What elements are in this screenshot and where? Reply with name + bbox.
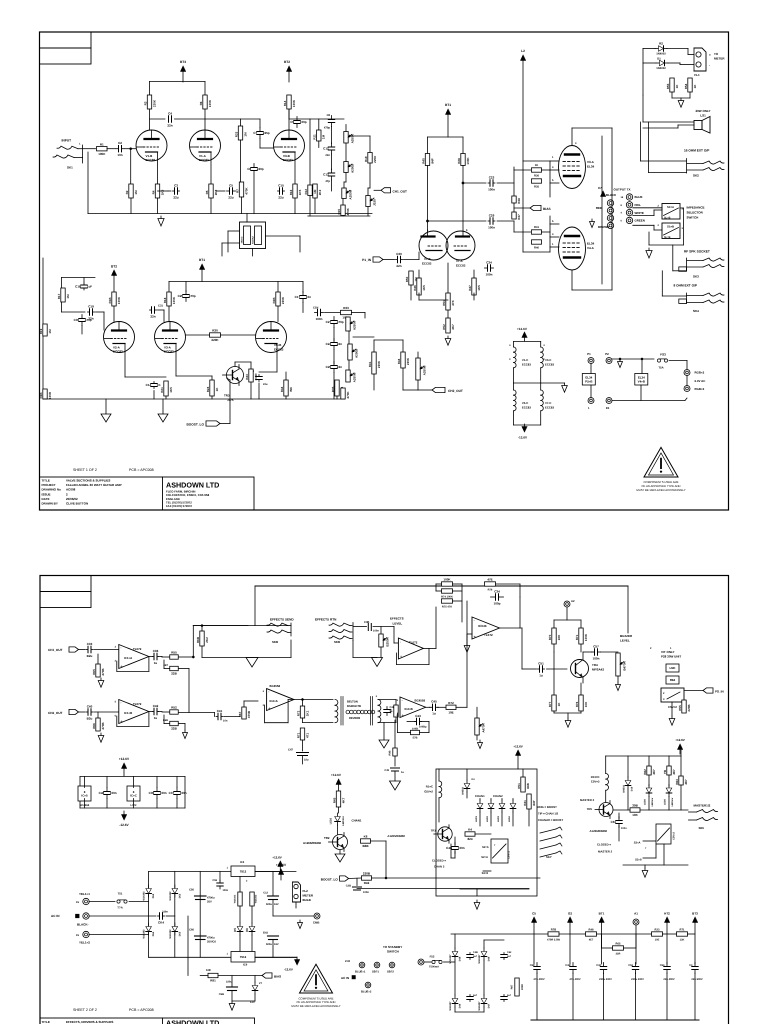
svg-text:100n: 100n: [488, 187, 495, 191]
svg-text:BULB: BULB: [303, 898, 312, 902]
svg-text:471: 471: [305, 733, 309, 738]
svg-text:J155: J155: [373, 199, 377, 206]
svg-text:4N4=2: 4N4=2: [241, 236, 244, 244]
svg-text:V7-B: V7-B: [424, 257, 431, 261]
svg-text:A2: A2: [571, 599, 575, 603]
svg-text:1M: 1M: [48, 329, 52, 334]
svg-text:R6: R6: [199, 101, 203, 105]
svg-text:1: 1: [588, 407, 590, 410]
svg-text:C54: C54: [660, 964, 665, 967]
svg-text:-12.6V: -12.6V: [119, 823, 129, 827]
svg-text:R76: R76: [488, 589, 493, 592]
svg-text:8: 8: [621, 204, 623, 207]
svg-text:5: 5: [552, 220, 554, 223]
svg-text:7912: 7912: [240, 955, 247, 959]
svg-text:+12.6V: +12.6V: [517, 327, 528, 331]
svg-text:T?A: T?A: [117, 906, 122, 910]
svg-text:4u7: 4u7: [507, 994, 512, 997]
svg-text:R77: R77: [548, 701, 552, 707]
svg-text:3: 3: [115, 646, 117, 649]
svg-text:MASTER 2: MASTER 2: [580, 798, 595, 802]
svg-text:ECC83: ECC83: [522, 363, 531, 367]
svg-text:C57: C57: [593, 644, 599, 648]
svg-text:A250M: A250M: [353, 372, 357, 382]
svg-text:TR3: TR3: [224, 394, 230, 398]
svg-text:C7: C7: [253, 131, 257, 135]
svg-text:C34: C34: [486, 260, 492, 264]
svg-text:6: 6: [115, 715, 117, 718]
svg-text:1u: 1u: [432, 712, 436, 716]
svg-text:5: 5: [552, 179, 554, 182]
svg-text:2: 2: [246, 880, 248, 883]
svg-text:470R 2.5W: 470R 2.5W: [547, 939, 561, 942]
svg-text:C24: C24: [326, 342, 332, 346]
svg-text:R70: R70: [548, 634, 552, 640]
svg-text:FEIL: FEIL: [635, 203, 641, 207]
svg-text:2: 2: [658, 205, 660, 208]
svg-text:AC008: AC008: [66, 488, 76, 492]
svg-text:20W ONLY: 20W ONLY: [695, 109, 710, 113]
svg-text:BT1: BT1: [445, 103, 451, 107]
svg-text:R71: R71: [296, 732, 300, 738]
svg-text:GREEN: GREEN: [635, 219, 645, 223]
svg-text:PS_IN: PS_IN: [715, 690, 724, 694]
svg-text:1K5: 1K5: [422, 285, 426, 291]
svg-text:100K: 100K: [208, 99, 212, 107]
svg-text:16: 16: [621, 196, 624, 199]
svg-text:C35: C35: [74, 318, 80, 322]
svg-text:V7-A: V7-A: [456, 259, 463, 263]
svg-text:-: -: [709, 63, 710, 67]
svg-text:IC3=B: IC3=B: [478, 624, 487, 628]
svg-text:A250b: A250b: [351, 164, 355, 173]
svg-text:R76: R76: [575, 701, 579, 707]
svg-text:CLIVE BUTTON: CLIVE BUTTON: [66, 502, 88, 506]
svg-text:R13=C: R13=C: [591, 775, 600, 779]
svg-text:R4: R4: [151, 190, 155, 194]
svg-text:C45: C45: [431, 700, 437, 704]
svg-text:D53: D53: [178, 893, 181, 898]
svg-text:R41: R41: [534, 226, 539, 229]
svg-text:SELECTOR: SELECTOR: [687, 211, 704, 215]
svg-text:W16302: W16302: [234, 894, 237, 903]
svg-text:220B: 220B: [687, 704, 691, 712]
svg-text:C34: C34: [494, 589, 500, 593]
svg-text:100n: 100n: [488, 225, 495, 229]
svg-text:R71: R71: [575, 634, 579, 640]
svg-text:C37: C37: [169, 791, 175, 795]
svg-text:+12.6V: +12.6V: [513, 745, 523, 749]
svg-text:R45: R45: [332, 797, 336, 803]
svg-text:BLACK: BLACK: [606, 193, 617, 197]
svg-text:CSV=2: CSV=2: [508, 850, 511, 859]
svg-text:C19: C19: [88, 304, 94, 308]
svg-text:30B: 30B: [632, 804, 638, 808]
svg-text:16 OHM EXT O/P: 16 OHM EXT O/P: [684, 149, 710, 153]
svg-text:100K: 100K: [117, 296, 121, 304]
svg-text:220R: 220R: [521, 984, 524, 990]
svg-text:B2u: B2u: [87, 716, 93, 720]
svg-text:4u7: 4u7: [507, 955, 512, 958]
svg-text:2K2: 2K2: [205, 637, 209, 643]
svg-text:R45: R45: [421, 158, 425, 164]
svg-text:ECC83: ECC83: [146, 158, 156, 162]
svg-text:220B: 220B: [363, 872, 371, 876]
svg-text:10n: 10n: [306, 295, 311, 299]
svg-text:R40: R40: [534, 247, 539, 250]
svg-text:IC=5: IC=5: [81, 794, 88, 798]
svg-text:470p: 470p: [189, 294, 196, 298]
svg-text:TIP = CHAN 1/2: TIP = CHAN 1/2: [538, 812, 559, 816]
svg-text:C55: C55: [212, 879, 217, 882]
svg-text:A250M: A250M: [349, 189, 353, 199]
svg-text:T51: T51: [118, 892, 123, 896]
svg-text:220u 400V: 220u 400V: [631, 978, 644, 981]
svg-text:D48: D48: [459, 956, 462, 961]
svg-text:470B: 470B: [101, 722, 105, 730]
svg-text:1M: 1M: [66, 294, 70, 299]
svg-text:F52: F52: [430, 955, 435, 959]
svg-text:1u: 1u: [154, 716, 158, 720]
svg-text:BT3: BT3: [692, 912, 698, 916]
svg-text:1K: 1K: [675, 84, 679, 89]
svg-text:C8: C8: [327, 114, 331, 117]
svg-text:C60: C60: [189, 929, 194, 932]
svg-text:CLOSED =: CLOSED =: [432, 859, 446, 863]
svg-text:SKB: SKB: [272, 640, 278, 644]
svg-text:100R: 100R: [48, 391, 52, 399]
svg-text:22n: 22n: [325, 154, 330, 157]
svg-text:TR2: TR2: [324, 836, 330, 840]
svg-text:AC IN: AC IN: [51, 914, 60, 918]
svg-text:LED2: LED2: [486, 815, 489, 822]
svg-text:IC=C: IC=C: [130, 794, 138, 798]
svg-text:CH2_OUT: CH2_OUT: [48, 711, 63, 715]
svg-text:CHAN 2: CHAN 2: [434, 865, 445, 869]
svg-text:7812: 7812: [240, 869, 247, 873]
svg-text:SWITCH: SWITCH: [687, 216, 699, 220]
svg-text:47p: 47p: [325, 180, 330, 183]
svg-text:R72: R72: [296, 710, 300, 716]
svg-text:10n: 10n: [223, 720, 228, 723]
svg-text:LNK: LNK: [670, 666, 677, 670]
svg-text:R17: R17: [57, 293, 61, 299]
svg-text:VALVE SECTIONS & SUPPLIES: VALVE SECTIONS & SUPPLIES: [66, 479, 110, 483]
svg-text:EFFECTS SEND: EFFECTS SEND: [270, 618, 294, 622]
svg-text:1K: 1K: [693, 84, 697, 89]
svg-text:S1=B: S1=B: [667, 225, 674, 229]
svg-text:LED3mr: LED3mr: [651, 797, 654, 806]
svg-text:TR4: TR4: [592, 663, 598, 667]
svg-text:V5=B: V5=B: [274, 343, 281, 347]
svg-text:A1266/BS860: A1266/BS860: [303, 841, 322, 845]
svg-text:-12.6V: -12.6V: [284, 968, 293, 972]
svg-text:R55: R55: [666, 83, 670, 89]
svg-text:EL34: EL34: [587, 165, 595, 169]
svg-text:R34: R34: [397, 358, 401, 364]
svg-text:SB5: SB5: [699, 826, 705, 830]
svg-text:12V: 12V: [250, 1001, 255, 1004]
svg-text:4700u: 4700u: [207, 897, 215, 900]
svg-text:C2B: C2B: [346, 885, 351, 888]
svg-text:C32: C32: [596, 964, 601, 967]
svg-text:DRAWN BY: DRAWN BY: [42, 502, 58, 506]
svg-text:W16302: W16302: [255, 894, 258, 903]
svg-text:R31: R31: [368, 361, 372, 367]
svg-text:S3=A: S3=A: [634, 842, 641, 845]
svg-text:BELTON: BELTON: [347, 701, 358, 704]
svg-text:R72: R72: [448, 701, 454, 705]
svg-text:R82: R82: [643, 769, 647, 775]
svg-text:C5B: C5B: [219, 993, 224, 996]
svg-text:1: 1: [79, 143, 81, 146]
svg-text:C9: C9: [290, 120, 294, 124]
svg-text:REVERB: REVERB: [349, 717, 360, 720]
svg-text:C61: C61: [611, 820, 617, 824]
svg-text:4: 4: [552, 233, 554, 236]
svg-text:1u: 1u: [539, 673, 543, 677]
svg-text:R5: R5: [205, 190, 209, 194]
svg-text:LED5: LED5: [664, 798, 667, 805]
svg-text:AC IN: AC IN: [341, 976, 349, 980]
svg-text:MUST BE REPLACED ACCORDINGLY: MUST BE REPLACED ACCORDINGLY: [291, 1004, 340, 1008]
svg-text:470K: 470K: [346, 391, 350, 399]
svg-text:SK1: SK1: [67, 166, 73, 170]
svg-text:C62: C62: [507, 951, 512, 954]
svg-text:1K: 1K: [557, 702, 561, 707]
svg-text:A470K: A470K: [482, 723, 486, 733]
svg-text:2K2: 2K2: [214, 189, 218, 195]
svg-text:C53: C53: [628, 964, 633, 967]
svg-text:SHEET 1 OF 2: SHEET 1 OF 2: [73, 468, 97, 472]
svg-text:PCB = APC008: PCB = APC008: [129, 468, 154, 472]
svg-text:C50: C50: [189, 889, 194, 892]
svg-text:FALLEN ANGEL 60 WATT GUITAR AM: FALLEN ANGEL 60 WATT GUITAR AMP: [66, 483, 122, 487]
svg-text:P2: P2: [605, 352, 609, 356]
svg-text:SKB: SKB: [334, 640, 340, 644]
svg-text:C51: C51: [538, 661, 544, 665]
svg-text:R46: R46: [413, 285, 417, 291]
svg-text:C1B: C1B: [75, 285, 82, 289]
svg-text:100n: 100n: [593, 656, 600, 660]
svg-text:ECC83: ECC83: [545, 406, 554, 410]
svg-text:S2=6: S2=6: [482, 846, 489, 849]
svg-text:E3: E3: [606, 407, 610, 410]
svg-text:8 OHM EXT O/P: 8 OHM EXT O/P: [674, 284, 698, 288]
svg-text:TL072: TL072: [133, 647, 142, 651]
svg-text:CK4: CK4: [158, 920, 164, 924]
svg-text:1M: 1M: [322, 134, 326, 139]
svg-text:BT1: BT1: [199, 258, 205, 262]
svg-text:16V: 16V: [274, 943, 279, 946]
svg-text:ISSUE: ISSUE: [42, 492, 51, 496]
svg-text:LED3: LED3: [330, 817, 333, 824]
svg-text:C5V=2: C5V=2: [673, 832, 676, 840]
svg-text:W4503: W4503: [623, 785, 626, 793]
svg-text:500u: 500u: [266, 903, 272, 906]
svg-text:R30: R30: [212, 329, 218, 333]
svg-text:ECC83: ECC83: [274, 348, 284, 352]
svg-text:10n: 10n: [117, 153, 122, 157]
svg-text:4K7: 4K7: [451, 324, 455, 330]
svg-text:C12: C12: [263, 892, 268, 895]
svg-text:R55: R55: [171, 651, 177, 655]
svg-text:22n: 22n: [396, 264, 401, 268]
svg-text:1u: 1u: [154, 661, 158, 665]
svg-text:BOOST_LO: BOOST_LO: [186, 423, 204, 427]
svg-text:RGB=2: RGB=2: [695, 371, 705, 375]
svg-text:BLUE: BLUE: [635, 195, 643, 199]
svg-text:T5A: T5A: [658, 366, 663, 370]
svg-text:4K7: 4K7: [341, 797, 345, 803]
svg-text:R24: R24: [206, 386, 210, 392]
svg-text:2: 2: [66, 492, 68, 496]
svg-text:R66: R66: [92, 723, 96, 729]
svg-text:CLOSED =: CLOSED =: [597, 843, 611, 847]
svg-text:V4=B: V4=B: [638, 379, 645, 383]
svg-text:SB?1: SB?1: [372, 971, 379, 974]
svg-text:470K: 470K: [244, 187, 248, 195]
svg-text:220K: 220K: [211, 338, 219, 342]
svg-text:WHITE: WHITE: [635, 211, 644, 215]
svg-text:C49: C49: [384, 769, 389, 772]
svg-text:TL072: TL072: [484, 633, 493, 637]
svg-text:470p: 470p: [324, 127, 330, 130]
svg-text:4: 4: [621, 212, 623, 215]
svg-text:C15: C15: [278, 183, 284, 187]
svg-text:1K5: 1K5: [477, 285, 481, 291]
svg-text:BROWN: BROWN: [598, 225, 609, 229]
svg-text:P2=B: P2=B: [585, 379, 592, 383]
svg-text:VIT ONLY: VIT ONLY: [661, 650, 675, 654]
svg-text:22n: 22n: [88, 316, 93, 320]
svg-text:YEL1=2: YEL1=2: [79, 941, 90, 945]
svg-text:MASTER 2: MASTER 2: [598, 850, 613, 854]
svg-text:1uF: 1uF: [87, 285, 93, 289]
svg-text:D46: D46: [459, 1003, 462, 1008]
svg-text:IMPEDANCE: IMPEDANCE: [687, 206, 705, 210]
svg-text:100Bp: 100Bp: [419, 726, 427, 729]
svg-text:L2: L2: [521, 49, 525, 53]
svg-text:C12: C12: [323, 147, 329, 151]
svg-text:B470K: B470K: [623, 661, 627, 671]
svg-text:K6: K6: [364, 835, 368, 839]
svg-text:2+8: 2+8: [345, 959, 350, 963]
svg-text:2: 2: [650, 647, 652, 650]
svg-text:W16302: W16302: [143, 891, 146, 901]
svg-text:YB: YB: [663, 769, 667, 774]
svg-text:P28 30W UNIT: P28 30W UNIT: [661, 655, 681, 659]
svg-text:16V: 16V: [274, 903, 279, 906]
svg-text:4u7: 4u7: [473, 955, 478, 958]
svg-text:ECC83: ECC83: [164, 349, 174, 353]
svg-text:BLUE=2: BLUE=2: [361, 991, 372, 994]
svg-text:100K: 100K: [292, 99, 296, 107]
svg-text:A1: A1: [634, 912, 638, 916]
svg-text:C29: C29: [489, 213, 495, 217]
svg-text:V7-C: V7-C: [545, 401, 551, 405]
svg-text:TR1: TR1: [431, 829, 437, 833]
svg-text:1: 1: [552, 156, 554, 159]
svg-text:BC4558: BC4558: [270, 684, 281, 688]
svg-text:R3B: R3B: [39, 392, 43, 399]
svg-text:METER: METER: [303, 894, 314, 898]
svg-text:47E: 47E: [487, 578, 492, 582]
svg-text:D55: D55: [178, 931, 181, 936]
svg-text:R50: R50: [405, 276, 409, 282]
svg-text:4E7: 4E7: [652, 769, 656, 775]
svg-text:C13: C13: [323, 173, 329, 177]
svg-text:470B: 470B: [247, 710, 251, 718]
svg-text:100n: 100n: [223, 889, 229, 892]
svg-text:S3=8: S3=8: [635, 859, 642, 862]
svg-text:100K: 100K: [443, 578, 451, 582]
svg-text:B2u: B2u: [87, 654, 93, 658]
svg-text:V3-C: V3-C: [545, 358, 551, 362]
svg-text:NC5A2: NC5A2: [252, 236, 255, 244]
svg-text:BUZZER: BUZZER: [620, 634, 633, 638]
svg-text:LED5: LED5: [644, 798, 647, 805]
svg-text:6: 6: [466, 229, 468, 232]
svg-text:LEVEL: LEVEL: [620, 639, 630, 643]
svg-text:P1_IN: P1_IN: [362, 258, 372, 262]
svg-text:CHAN2/2 = BOOST: CHAN2/2 = BOOST: [538, 818, 563, 822]
svg-text:1N4002: 1N4002: [656, 67, 666, 70]
svg-text:D52: D52: [152, 893, 155, 898]
svg-text:824: 824: [467, 837, 472, 841]
svg-text:R16: R16: [289, 189, 293, 195]
svg-text:22u: 22u: [173, 195, 178, 199]
svg-text:+12.6V: +12.6V: [119, 757, 130, 761]
svg-text:D54: D54: [152, 931, 155, 936]
svg-text:TITLE: TITLE: [42, 1020, 50, 1024]
svg-text:R43: R43: [245, 374, 249, 380]
svg-text:SB?2: SB?2: [387, 971, 394, 974]
svg-text:R69: R69: [390, 708, 393, 713]
svg-text:A250K: A250K: [353, 320, 357, 330]
svg-text:SK3: SK3: [693, 275, 699, 279]
svg-text:4E7: 4E7: [589, 939, 594, 942]
svg-text:1N4002: 1N4002: [656, 53, 666, 56]
svg-text:IC1=B: IC1=B: [124, 711, 132, 715]
svg-text:22u: 22u: [263, 383, 268, 386]
svg-text:A1266/BS860: A1266/BS860: [590, 829, 608, 833]
svg-text:22B: 22B: [171, 727, 177, 731]
svg-text:220u: 220u: [226, 981, 232, 984]
svg-text:100n: 100n: [621, 827, 627, 830]
svg-text:BT2: BT2: [111, 265, 117, 269]
svg-text:W4503: W4503: [462, 787, 465, 795]
svg-text:1K1: 1K1: [305, 710, 309, 716]
svg-text:+12.6V: +12.6V: [272, 856, 282, 860]
svg-text:1K5: 1K5: [298, 189, 302, 195]
svg-text:BLACK-: BLACK-: [77, 923, 89, 927]
svg-text:R1: R1: [100, 142, 104, 146]
svg-text:CH1_OUT: CH1_OUT: [48, 648, 63, 652]
svg-text:S3=8: S3=8: [482, 872, 489, 875]
svg-text:C3: C3: [689, 964, 693, 967]
svg-text:R87: R87: [511, 984, 514, 989]
svg-text:C40: C40: [87, 704, 93, 708]
svg-text:100K: 100K: [584, 633, 588, 641]
svg-text:CMB: CMB: [313, 921, 319, 925]
svg-text:LED3mr: LED3mr: [671, 797, 674, 806]
svg-text:E7B: E7B: [413, 737, 418, 740]
svg-text:SK2: SK2: [693, 174, 699, 178]
svg-text:R52: R52: [442, 324, 446, 330]
svg-text:220K: 220K: [281, 296, 285, 304]
svg-text:C58: C58: [530, 964, 535, 967]
